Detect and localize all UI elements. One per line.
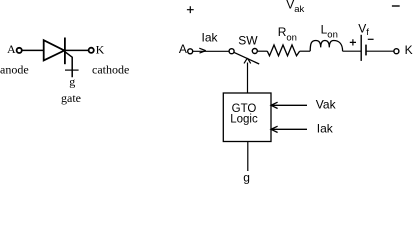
battery Vf positive plate (360, 35, 362, 61)
battery Vf negative plate (365, 45, 367, 56)
cathode terminal circle (89, 48, 94, 53)
Vak input arrow (271, 102, 307, 108)
switch actuator arrowhead (244, 58, 251, 63)
resistor Ron (267, 45, 299, 56)
battery minus sign (368, 38, 374, 40)
cathode terminal circle (model) (394, 49, 399, 54)
Iak input arrow (271, 126, 307, 132)
wire A to switch (193, 50, 229, 52)
switch pole terminal (229, 49, 234, 54)
switch blade (234, 52, 259, 64)
svg-text:gate: gate (61, 91, 81, 105)
thyristor cathode bar (64, 38, 66, 65)
wire resistor to inductor (300, 50, 310, 52)
svg-text:K: K (405, 43, 413, 57)
svg-text:Logic: Logic (230, 113, 258, 125)
minus polarity of Vak measurement (392, 5, 400, 7)
svg-text:SW: SW (238, 33, 258, 47)
svg-text:cathode: cathode (92, 63, 129, 77)
svg-text:Vf: Vf (358, 21, 369, 38)
switch throw terminal (252, 49, 257, 54)
wire inductor to battery (343, 50, 361, 52)
wire battery to K (366, 50, 394, 52)
svg-text:A: A (179, 42, 187, 56)
thyristor triangle (44, 40, 65, 60)
svg-text:Vak: Vak (286, 0, 304, 15)
svg-text:Vak: Vak (316, 97, 337, 111)
svg-text:g: g (69, 75, 75, 89)
anode terminal circle (17, 48, 22, 53)
svg-text:K: K (96, 43, 105, 57)
wire switch to resistor (257, 50, 267, 52)
svg-text:Iak: Iak (317, 121, 334, 135)
battery plus sign (350, 39, 356, 45)
Iak current arrow (199, 48, 206, 53)
svg-text:anode: anode (0, 63, 29, 77)
gate lead (65, 52, 72, 77)
wire anode to triangle (22, 49, 43, 51)
svg-text:A: A (7, 42, 16, 56)
gate tick (65, 69, 79, 71)
GTO logic box (223, 93, 271, 142)
svg-text:Lon: Lon (321, 23, 338, 41)
svg-text:Iak: Iak (202, 31, 219, 45)
switch actuator wire (247, 63, 249, 94)
svg-text:g: g (243, 171, 250, 184)
anode terminal circle (model) (188, 49, 193, 54)
svg-text:Ron: Ron (278, 25, 297, 44)
wire bar to cathode (65, 49, 89, 51)
gate output wire (247, 142, 249, 171)
plus polarity of Vak measurement (187, 6, 194, 13)
inductor Lon (310, 41, 342, 52)
